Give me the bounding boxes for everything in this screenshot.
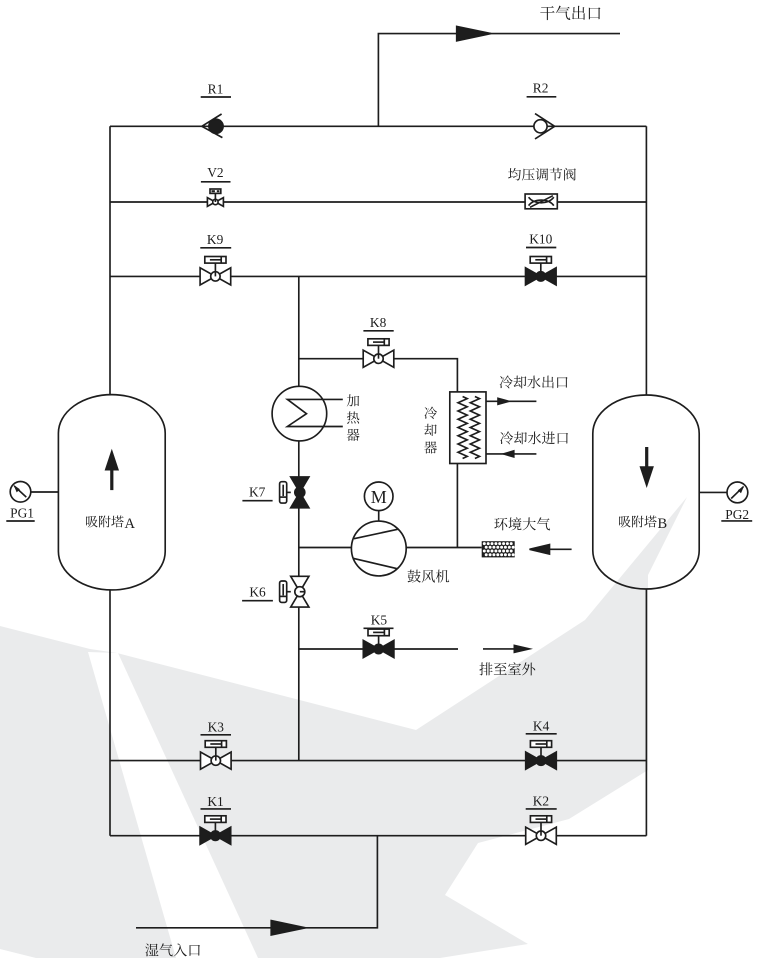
heater circle	[272, 386, 327, 441]
cooler coil 2	[470, 397, 479, 459]
tower A up arrow	[110, 468, 113, 490]
valve K2	[540, 822, 542, 835]
valve K7	[287, 491, 291, 493]
svg-text:PG2: PG2	[725, 507, 749, 522]
valve K9	[214, 263, 216, 276]
arrow wet gas inlet	[271, 921, 305, 935]
svg-text:M: M	[371, 487, 387, 507]
valve K1	[214, 822, 216, 835]
check valve R2	[534, 120, 547, 133]
svg-text:K9: K9	[207, 232, 224, 247]
wire K1-K2 line	[110, 835, 646, 837]
pressure equalizing regulating valve	[525, 194, 557, 209]
svg-text:K2: K2	[533, 794, 549, 809]
tower B label	[619, 516, 667, 532]
label K2	[533, 794, 549, 809]
svg-text:V2: V2	[207, 165, 223, 180]
svg-text:K5: K5	[371, 612, 388, 627]
cooling water inlet	[486, 453, 536, 455]
watermark gray mass	[0, 497, 687, 958]
valve K3	[215, 747, 217, 760]
svg-text:A: A	[125, 516, 136, 532]
air inlet arrow	[545, 548, 572, 550]
label K10	[529, 232, 552, 247]
wire mid riser	[298, 276, 300, 386]
svg-text:K3: K3	[208, 719, 225, 734]
arrow dry gas outlet	[457, 26, 491, 40]
air filter hatched box	[482, 541, 515, 557]
svg-text:K4: K4	[533, 719, 550, 734]
valve K10	[540, 263, 542, 276]
ambient air label	[494, 517, 550, 530]
cooler box	[450, 392, 486, 464]
svg-text:K1: K1	[207, 794, 223, 809]
label PG1	[10, 506, 34, 521]
cooling water outlet	[486, 400, 536, 402]
svg-text:K7: K7	[249, 485, 266, 500]
wire dry gas outlet top	[378, 34, 620, 127]
label R1	[208, 81, 224, 96]
label V2	[207, 165, 223, 180]
valve V2	[214, 193, 216, 202]
svg-text:B: B	[658, 516, 668, 532]
svg-text:K10: K10	[529, 232, 552, 247]
wire blower suction	[299, 547, 352, 549]
wire wet gas inlet	[136, 836, 377, 928]
label K6	[249, 585, 266, 600]
label PG2	[725, 507, 749, 522]
label equalizing valve	[508, 168, 576, 181]
check valve R1	[209, 119, 223, 133]
label R2	[533, 81, 549, 96]
wire V2 equalizing line	[110, 201, 646, 203]
blower label	[408, 570, 450, 583]
heater label	[347, 394, 360, 441]
label K7	[249, 485, 266, 500]
wire K9-K10 line	[110, 275, 646, 277]
svg-text:R2: R2	[533, 81, 549, 96]
adsorption tower B vessel	[593, 395, 699, 589]
motor M	[378, 511, 380, 521]
blower circle	[351, 521, 406, 576]
vent to outdoor arrow	[483, 648, 517, 650]
wire K3-K4 line	[110, 760, 646, 762]
valve K6	[287, 591, 291, 593]
wire K8 branch	[299, 359, 458, 392]
wire left riser	[109, 126, 111, 394]
svg-text:K8: K8	[370, 315, 387, 330]
label K5	[371, 612, 388, 627]
valve K4	[540, 747, 542, 760]
tower B down arrow	[645, 447, 648, 469]
tower A label	[86, 516, 135, 532]
cooler coil 1	[458, 397, 467, 459]
label K9	[207, 232, 224, 247]
svg-text:PG1: PG1	[10, 506, 34, 521]
label K8	[370, 315, 387, 330]
wire K5 vent line	[299, 648, 458, 650]
pressure gauge PG2	[699, 491, 727, 493]
watermark white band	[88, 652, 258, 958]
label K3	[208, 719, 225, 734]
dry gas outlet label	[540, 6, 600, 20]
svg-text:R1: R1	[208, 81, 224, 96]
svg-text:K6: K6	[249, 585, 266, 600]
adsorption tower A vessel	[58, 395, 165, 590]
wire R1-R2 header	[110, 125, 646, 127]
cooler label	[424, 407, 437, 454]
pressure gauge PG1	[31, 491, 59, 493]
label K4	[533, 719, 550, 734]
label K1	[207, 794, 223, 809]
wire cooler to blower	[456, 464, 458, 548]
wet gas inlet label	[145, 943, 200, 956]
valve K5	[378, 636, 380, 649]
wire right riser	[645, 126, 647, 395]
watermark white corner sliver	[0, 949, 36, 958]
valve K8	[378, 345, 380, 358]
wire blower discharge to filter	[406, 547, 482, 549]
